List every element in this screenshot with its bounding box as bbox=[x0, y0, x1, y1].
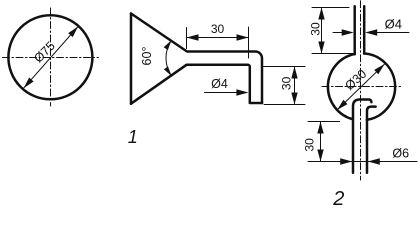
svg-text:Ø6: Ø6 bbox=[392, 147, 409, 161]
svg-text:1: 1 bbox=[128, 127, 138, 147]
svg-text:Ø4: Ø4 bbox=[211, 77, 228, 91]
svg-text:Ø4: Ø4 bbox=[385, 17, 402, 32]
svg-text:60°: 60° bbox=[140, 47, 154, 66]
svg-text:2: 2 bbox=[332, 188, 344, 207]
svg-text:30: 30 bbox=[211, 22, 225, 36]
svg-text:30: 30 bbox=[302, 138, 316, 152]
svg-text:30: 30 bbox=[280, 76, 294, 90]
svg-text:30: 30 bbox=[308, 22, 322, 36]
